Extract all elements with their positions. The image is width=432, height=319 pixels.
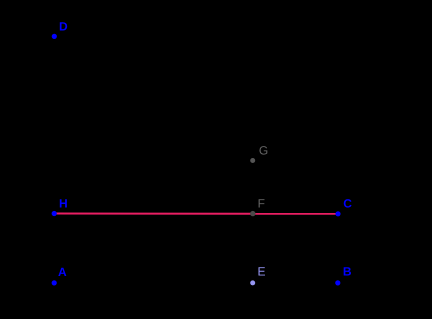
svg-text:B: B bbox=[343, 265, 352, 279]
point H bbox=[52, 211, 57, 216]
svg-text:H: H bbox=[59, 197, 68, 211]
svg-text:A: A bbox=[58, 265, 67, 279]
point B bbox=[335, 280, 340, 285]
point C bbox=[335, 211, 340, 216]
point G bbox=[250, 158, 255, 163]
point A bbox=[52, 280, 57, 285]
svg-text:E: E bbox=[258, 265, 266, 279]
point E bbox=[250, 280, 255, 285]
point F bbox=[250, 211, 255, 216]
svg-text:C: C bbox=[343, 197, 352, 211]
svg-text:G: G bbox=[259, 144, 268, 158]
point D bbox=[52, 34, 57, 39]
svg-text:F: F bbox=[258, 197, 265, 211]
svg-text:D: D bbox=[59, 20, 68, 34]
segment HC (red line) bbox=[54, 213, 338, 215]
